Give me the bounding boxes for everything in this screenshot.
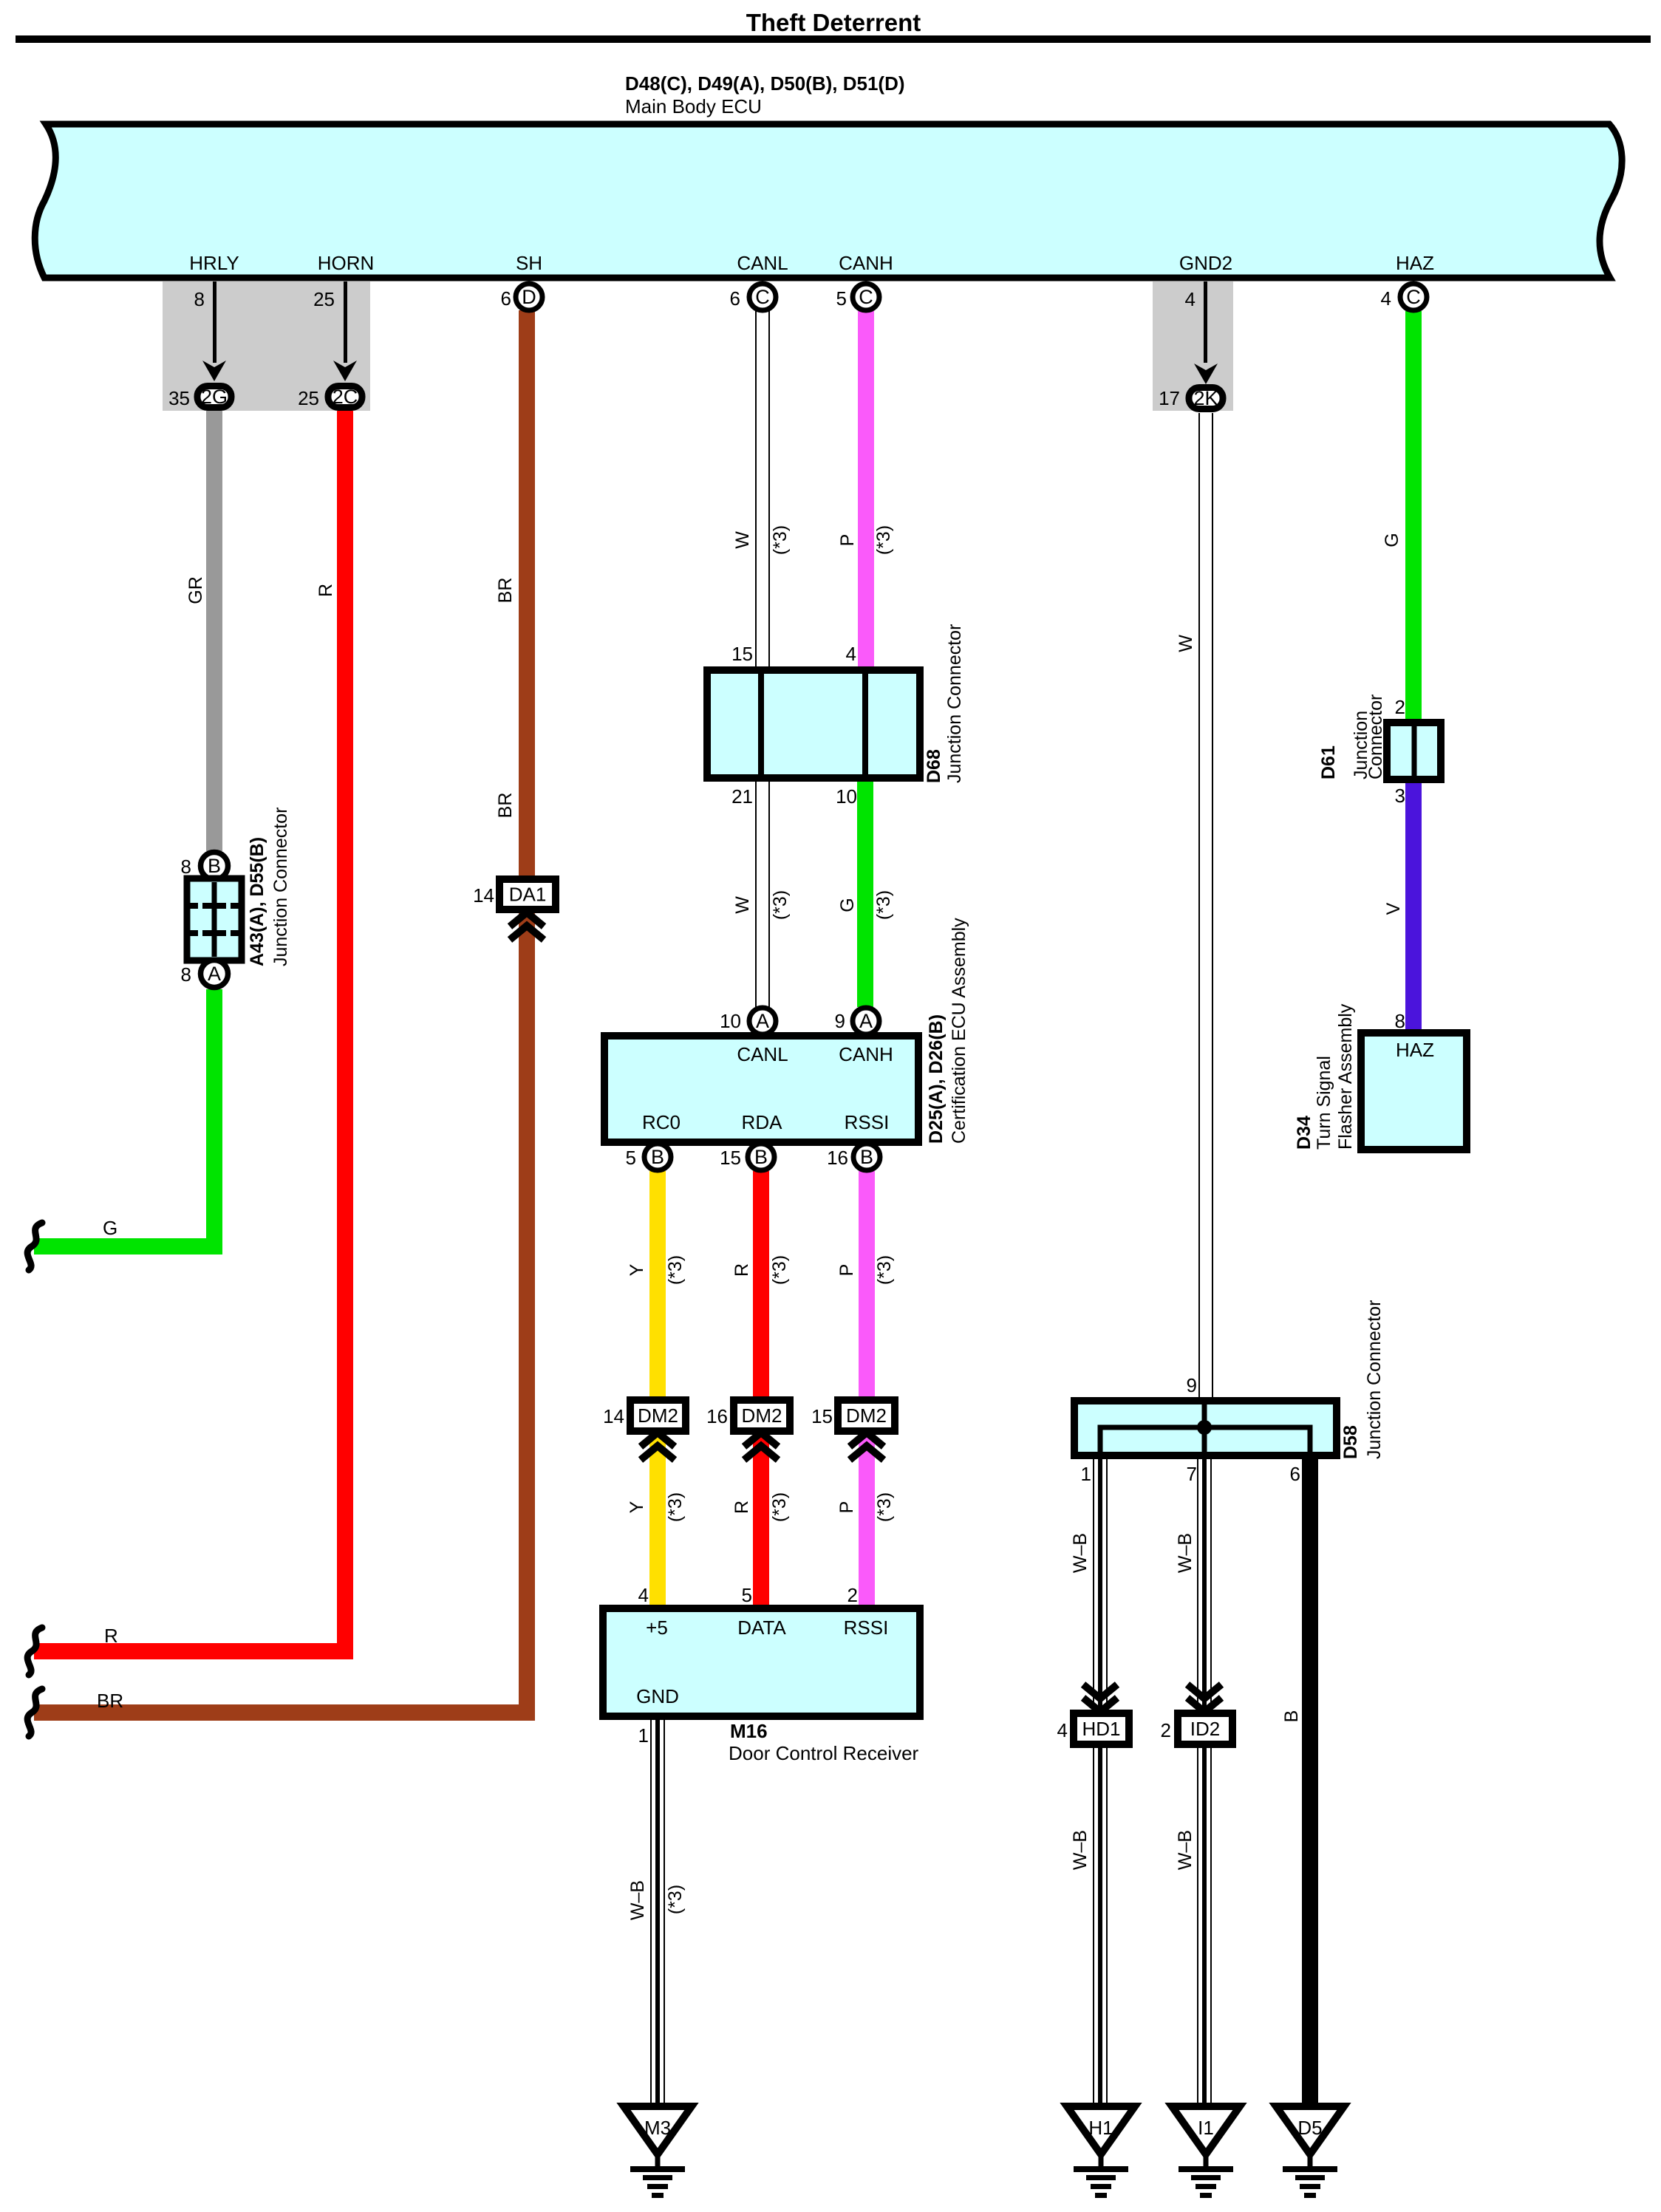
wire W-B from D58 pin 7 through ID2 to ground I1 [1197,1453,1212,2106]
svg-text:GND2: GND2 [1179,252,1232,274]
Certification ECU Assembly D25(A) D26(B) [604,918,969,1170]
pin 8 HRLY arrow to splice 2G [168,281,231,409]
svg-text:5: 5 [626,1147,636,1169]
wire P from RSSI pin B through DM2 to M16 pin 2 [859,1171,875,1612]
svg-text:B: B [754,1146,768,1168]
svg-text:14: 14 [603,1405,624,1427]
svg-text:(*3): (*3) [873,525,894,555]
svg-text:2C: 2C [332,386,358,408]
svg-text:Door Control Receiver: Door Control Receiver [729,1742,919,1764]
wire R from RDA pin B through DM2 to M16 pin 5 [753,1171,769,1612]
svg-text:(*3): (*3) [770,890,791,920]
svg-text:6: 6 [501,287,511,310]
svg-text:4: 4 [1057,1719,1068,1741]
svg-text:10: 10 [836,785,857,808]
svg-text:16: 16 [827,1147,848,1169]
wire GR from 2G splice to junction B [206,411,222,851]
svg-text:W–B: W–B [1175,1533,1196,1573]
svg-text:HORN: HORN [318,252,375,274]
break wire R [27,1628,42,1675]
svg-text:DM2: DM2 [846,1404,887,1427]
svg-text:2: 2 [1161,1719,1171,1741]
break wire G [27,1223,42,1270]
svg-text:HAZ: HAZ [1396,1039,1434,1061]
svg-text:CANH: CANH [839,1043,893,1065]
svg-text:G: G [1382,533,1402,547]
connector HD1 pin 4 [1057,1684,1129,1744]
svg-text:A43(A), D55(B): A43(A), D55(B) [247,837,267,966]
svg-text:DM2: DM2 [638,1404,678,1427]
svg-text:B: B [860,1146,873,1168]
svg-text:(*3): (*3) [769,1255,790,1285]
svg-text:HAZ: HAZ [1396,252,1434,274]
svg-text:(*3): (*3) [665,1885,686,1914]
junction connector A43(A) D55(B) [181,808,291,988]
wire G from D68 pin 10 to certification ECU pin A [857,778,873,1007]
svg-text:A: A [208,963,221,985]
svg-text:RC0: RC0 [642,1111,681,1133]
wire BR from SH pin D down and left to break [34,310,527,1713]
svg-text:DA1: DA1 [509,884,547,906]
svg-text:4: 4 [1185,288,1196,310]
svg-text:R: R [316,584,336,597]
svg-text:SH: SH [516,252,542,274]
svg-text:8: 8 [181,963,191,986]
svg-text:14: 14 [473,884,494,907]
ground D5 [1276,2106,1344,2198]
svg-text:ID2: ID2 [1190,1718,1220,1740]
svg-text:P: P [836,1501,857,1514]
svg-text:D5: D5 [1297,2117,1322,2139]
svg-text:9: 9 [835,1010,845,1032]
svg-text:I1: I1 [1198,2117,1214,2139]
svg-text:CANH: CANH [839,252,893,274]
svg-text:+5: +5 [646,1617,668,1639]
svg-text:HD1: HD1 [1082,1718,1120,1740]
svg-text:DM2: DM2 [742,1404,782,1427]
svg-text:3: 3 [1395,785,1405,807]
svg-text:(*3): (*3) [769,1492,790,1522]
svg-text:Turn Signal: Turn Signal [1314,1056,1334,1150]
connector DM2 pin 15 [811,1400,895,1460]
junction connector D58 [1074,1300,1385,1485]
svg-text:25: 25 [313,288,335,310]
svg-text:2: 2 [1395,696,1405,718]
svg-text:C: C [859,286,873,308]
svg-text:Y: Y [627,1501,647,1513]
svg-text:15: 15 [811,1405,833,1427]
svg-text:P: P [836,1264,857,1277]
svg-text:(*3): (*3) [665,1255,686,1285]
svg-text:D61: D61 [1318,745,1339,779]
connector DA1 pin 14 [473,879,556,940]
wire R from 2C splice down and left to break [34,411,345,1651]
svg-text:W: W [732,531,753,549]
svg-text:10: 10 [720,1010,741,1032]
ground I1 [1172,2106,1240,2198]
svg-text:P: P [837,534,858,547]
svg-text:BR: BR [97,1690,123,1712]
svg-text:D68: D68 [924,749,944,783]
svg-text:C: C [755,286,770,308]
svg-text:W–B: W–B [1070,1830,1091,1870]
svg-text:BR: BR [495,578,516,604]
svg-text:D58: D58 [1340,1425,1361,1459]
svg-text:RDA: RDA [742,1111,783,1133]
svg-text:G: G [837,898,858,912]
junction connector D61 [1318,694,1441,807]
svg-text:GR: GR [185,576,206,604]
svg-text:(*3): (*3) [665,1492,686,1522]
M16 Door Control Receiver [603,1584,920,1764]
svg-text:RSSI: RSSI [845,1111,890,1133]
svg-text:CANL: CANL [737,1043,788,1065]
svg-text:B: B [651,1146,664,1168]
pin 4 GND2 arrow to splice 2K [1159,281,1223,409]
svg-text:35: 35 [168,387,190,409]
wire W CANL from pin C through D68 to certification ECU pin A [755,310,770,1007]
wire W-B from M16 GND pin 1 to ground M3 [650,1716,665,2106]
svg-text:B: B [208,855,221,877]
svg-text:Flasher Assembly: Flasher Assembly [1335,1003,1356,1150]
svg-text:Main Body ECU: Main Body ECU [625,95,762,117]
svg-text:M16: M16 [730,1720,768,1742]
svg-text:CANL: CANL [737,252,788,274]
svg-text:21: 21 [731,785,753,808]
svg-text:A: A [756,1010,769,1032]
svg-text:1: 1 [638,1724,649,1747]
pin 6 SH connector D [501,284,542,310]
svg-text:H1: H1 [1088,2117,1113,2139]
svg-text:6: 6 [1290,1463,1300,1485]
svg-text:8: 8 [181,856,191,878]
svg-text:16: 16 [706,1405,728,1427]
connector ID2 pin 2 [1161,1684,1232,1744]
svg-text:R: R [731,1501,752,1514]
svg-text:W: W [732,896,753,914]
svg-text:W: W [1176,635,1196,652]
svg-text:9: 9 [1187,1374,1197,1396]
svg-text:2K: 2K [1193,387,1218,409]
svg-text:DATA: DATA [737,1617,786,1639]
svg-text:D25(A), D26(B): D25(A), D26(B) [926,1014,947,1144]
svg-text:D48(C), D49(A), D50(B), D51(D): D48(C), D49(A), D50(B), D51(D) [625,72,905,95]
svg-text:W–B: W–B [1175,1830,1196,1870]
svg-text:D: D [522,286,536,308]
svg-text:Certification ECU Assembly: Certification ECU Assembly [949,918,969,1144]
pin 6 CANL connector C [730,284,776,310]
svg-text:Theft Deterrent: Theft Deterrent [746,9,921,36]
svg-text:15: 15 [720,1147,741,1169]
svg-text:5: 5 [836,287,847,310]
svg-text:GND: GND [636,1685,679,1707]
break wire BR [27,1689,42,1736]
D34 Turn Signal Flasher Assembly [1294,1003,1467,1150]
wire G from junction A down and left to break [34,989,214,1246]
svg-text:G: G [103,1217,117,1239]
svg-text:Junction Connector: Junction Connector [944,624,965,783]
svg-text:Junction Connector: Junction Connector [270,808,291,966]
svg-text:4: 4 [846,643,856,665]
svg-text:25: 25 [298,387,319,409]
pin 5 CANH connector C [836,284,879,310]
svg-text:Junction Connector: Junction Connector [1364,1300,1385,1459]
splice area HRLY/HORN [163,281,370,411]
Main Body ECU D48(C) D49(A) D50(B) D51(D) [35,72,1622,278]
svg-text:R: R [104,1625,118,1647]
svg-text:(*3): (*3) [770,525,791,555]
svg-text:R: R [731,1263,752,1277]
wire W from 2K splice to D58 pin 9 [1198,413,1213,1407]
svg-text:(*3): (*3) [874,1492,895,1522]
svg-text:W–B: W–B [627,1880,648,1920]
junction connector D68 [707,624,965,808]
svg-text:2G: 2G [201,386,228,408]
wire V from D61 pin 3 to D34 pin 8 [1405,776,1422,1036]
wire G from HAZ pin C to D61 pin 2 [1405,311,1422,726]
svg-text:17: 17 [1159,387,1180,409]
svg-text:A: A [859,1010,873,1032]
svg-text:6: 6 [730,287,740,310]
svg-text:RSSI: RSSI [844,1617,889,1639]
svg-text:8: 8 [1395,1010,1405,1032]
pin 25 HORN arrow to splice 2C [298,281,362,409]
svg-text:D34: D34 [1294,1116,1314,1150]
top rule [16,35,1651,43]
wire W-B from D58 pin 1 through HD1 to ground H1 [1093,1453,1108,2106]
svg-text:HRLY: HRLY [189,252,239,274]
svg-text:8: 8 [194,288,205,310]
wire P CANH from pin C to D68 pin 4 [858,311,874,670]
svg-text:5: 5 [742,1584,752,1606]
svg-text:Y: Y [627,1263,647,1276]
ground H1 [1067,2106,1135,2198]
svg-text:(*3): (*3) [874,1255,895,1285]
svg-text:W–B: W–B [1070,1533,1091,1573]
pin 4 HAZ connector C [1381,284,1427,310]
splice area GND2 [1153,281,1233,411]
svg-text:BR: BR [495,793,516,819]
svg-text:7: 7 [1187,1463,1197,1485]
svg-text:M3: M3 [644,2117,671,2139]
wire Y from RC0 pin B through DM2 to M16 pin 4 [649,1171,666,1612]
svg-text:C: C [1406,286,1421,308]
svg-text:B: B [1281,1710,1302,1723]
connector DM2 pin 14 [603,1400,686,1460]
svg-text:4: 4 [1381,287,1391,310]
svg-text:V: V [1383,902,1404,915]
connector DM2 pin 16 [706,1400,790,1460]
svg-text:1: 1 [1081,1463,1091,1485]
svg-text:Connector: Connector [1365,694,1386,779]
wire B from D58 pin 6 to ground D5 [1302,1453,1318,2106]
svg-text:2: 2 [847,1584,858,1606]
svg-text:15: 15 [731,643,753,665]
svg-text:(*3): (*3) [873,890,894,920]
ground M3 [624,2106,692,2198]
svg-text:4: 4 [638,1584,649,1606]
